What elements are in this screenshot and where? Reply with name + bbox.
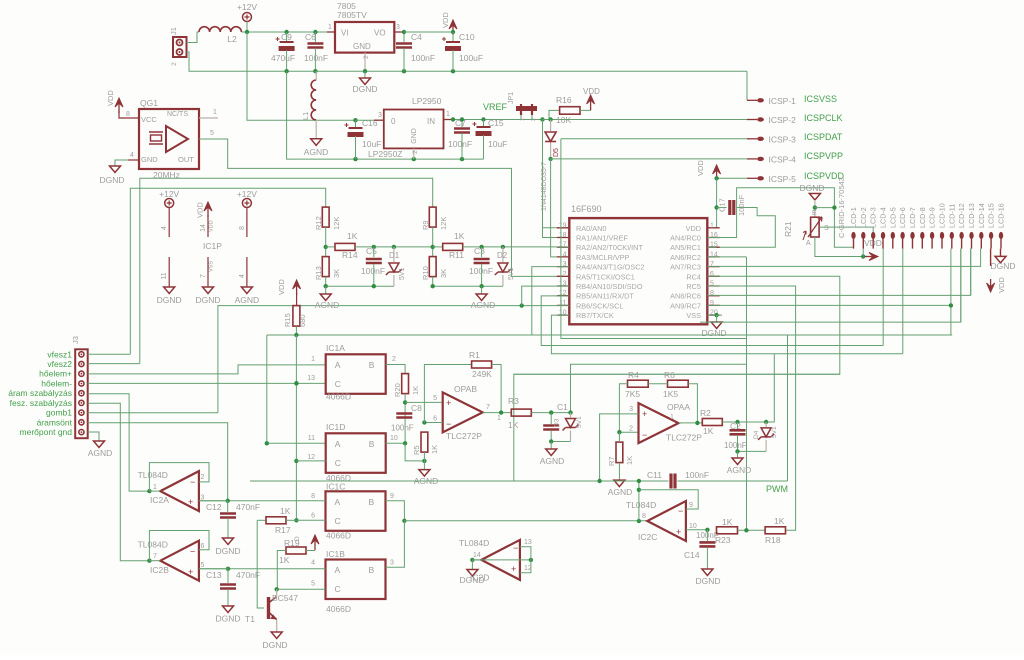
svg-text:GND: GND xyxy=(411,128,418,144)
svg-text:DGND: DGND xyxy=(262,640,287,650)
svg-text:AGND: AGND xyxy=(471,300,496,310)
wire IC1A B out to R20 xyxy=(386,365,405,374)
resistor R14 1K xyxy=(326,246,335,248)
resistor R2 1K xyxy=(702,419,722,426)
svg-text:LCD-3: LCD-3 xyxy=(869,207,878,228)
svg-text:VI: VI xyxy=(341,29,349,38)
svg-text:hőelem-: hőelem- xyxy=(41,379,72,389)
svg-text:L1: L1 xyxy=(301,112,310,120)
power VDD arrow at 7805 output xyxy=(452,23,454,35)
wire RA2 pin17 to divider net xyxy=(503,246,569,248)
svg-text:D: D xyxy=(294,536,301,541)
svg-text:−: − xyxy=(190,547,195,557)
pin ICSP-3 ICSPDAT xyxy=(561,138,747,140)
wire RB5 pin12 drop xyxy=(541,296,883,346)
diode D5 1N4148 xyxy=(548,117,552,121)
svg-text:2: 2 xyxy=(412,150,419,154)
svg-text:DGND: DGND xyxy=(352,84,377,94)
ground AGND under C3 xyxy=(481,286,483,294)
svg-text:D5: D5 xyxy=(553,148,560,157)
svg-text:8: 8 xyxy=(311,493,315,500)
ground AGND under R5 xyxy=(423,461,425,470)
wire R4 left to OPAA - xyxy=(619,384,638,433)
svg-text:LCD-4: LCD-4 xyxy=(879,207,888,228)
svg-text:R15: R15 xyxy=(283,313,292,327)
svg-text:B: B xyxy=(369,439,375,449)
svg-text:DGND: DGND xyxy=(157,295,182,305)
svg-text:10: 10 xyxy=(390,435,398,442)
svg-text:C-GRID-16-70543: C-GRID-16-70543 xyxy=(837,177,846,238)
svg-text:1N4148DO35-7: 1N4148DO35-7 xyxy=(541,162,548,211)
svg-text:4: 4 xyxy=(161,226,168,230)
wire C2 D4 ground row xyxy=(738,450,767,452)
svg-text:R2: R2 xyxy=(700,408,711,418)
svg-text:LCD-5: LCD-5 xyxy=(888,207,897,228)
wire LCD-15 to VDD down arrow xyxy=(990,249,992,266)
svg-text:12: 12 xyxy=(307,454,315,461)
svg-text:7: 7 xyxy=(200,274,207,278)
svg-text:9: 9 xyxy=(689,502,693,509)
wire PWM filter feedback column xyxy=(746,257,748,530)
svg-text:1: 1 xyxy=(213,109,217,116)
svg-text:17: 17 xyxy=(559,242,567,249)
wire D5 to MCLR pin 4 xyxy=(548,157,552,161)
svg-text:IC2B: IC2B xyxy=(150,565,169,575)
svg-text:TL084D: TL084D xyxy=(138,540,168,550)
resistor R11 1K xyxy=(433,246,443,248)
ground AGND at J3 xyxy=(94,441,105,448)
svg-text:R20: R20 xyxy=(393,383,402,397)
wire R20 bottom to OPAB+ xyxy=(404,394,406,444)
svg-text:+: + xyxy=(188,497,193,507)
svg-text:VDD: VDD xyxy=(997,277,1006,293)
svg-text:1K: 1K xyxy=(625,456,634,465)
ground AGND under L1 xyxy=(311,139,322,146)
svg-text:OUT: OUT xyxy=(178,155,194,164)
svg-text:1: 1 xyxy=(328,24,332,31)
inductor L1 xyxy=(311,80,316,120)
svg-text:4066D: 4066D xyxy=(326,531,351,541)
capacitor C7 100nF xyxy=(451,117,455,121)
svg-text:249K: 249K xyxy=(472,369,492,379)
wire IC2C pin9 feedback tap xyxy=(639,490,698,509)
ground DGND at QG1 xyxy=(128,159,139,161)
svg-text:8: 8 xyxy=(126,111,130,118)
ground AGND under R13 xyxy=(325,286,327,294)
wire RA4 pin3 drop xyxy=(532,267,569,335)
wire divider AGND row left xyxy=(326,285,394,287)
resistor R16 10K xyxy=(543,110,560,119)
capacitor C12 470nF xyxy=(227,501,229,512)
wire IC2C input net xyxy=(637,519,641,523)
svg-text:+12V: +12V xyxy=(159,189,179,199)
svg-text:3: 3 xyxy=(201,495,205,502)
svg-text:R14: R14 xyxy=(342,250,358,260)
svg-text:−: − xyxy=(678,506,683,516)
svg-text:12K: 12K xyxy=(332,217,341,230)
wire gomb1 xyxy=(88,412,218,414)
resistor R17 1K xyxy=(257,519,266,521)
svg-text:RB6/SCK/SCL: RB6/SCK/SCL xyxy=(576,301,623,310)
svg-text:3: 3 xyxy=(378,112,382,119)
svg-text:AGND: AGND xyxy=(304,147,329,157)
capacitor C10 100uF xyxy=(451,30,455,34)
svg-text:RA1/AN1/VREF: RA1/AN1/VREF xyxy=(576,234,628,243)
svg-text:RB4/AN10/SDI/SDO: RB4/AN10/SDI/SDO xyxy=(576,282,643,291)
capacitor C1 100nF xyxy=(549,410,553,414)
svg-text:LCD-2: LCD-2 xyxy=(859,207,868,228)
wire R19 left to T1 base node xyxy=(277,551,286,590)
svg-text:+: + xyxy=(676,527,681,537)
svg-text:4: 4 xyxy=(130,152,134,159)
svg-text:GND: GND xyxy=(353,42,371,51)
svg-text:VCC: VCC xyxy=(141,115,157,124)
svg-text:VDD: VDD xyxy=(196,202,205,218)
oscillator QG1 20MHz xyxy=(139,109,199,169)
svg-text:C: C xyxy=(335,458,341,468)
svg-text:B: B xyxy=(369,565,375,575)
svg-text:1K: 1K xyxy=(703,426,714,436)
wire ground rail drop to analog ground rail xyxy=(287,71,484,159)
resistor R23 1K xyxy=(717,527,738,534)
svg-text:DGND: DGND xyxy=(99,175,124,185)
svg-text:3K: 3K xyxy=(439,269,448,278)
svg-text:VDD: VDD xyxy=(583,87,600,96)
op-amp OPAB TLC272P xyxy=(443,392,483,432)
svg-text:1K: 1K xyxy=(722,517,733,527)
node VREF junction to RA0/RA1 xyxy=(540,117,544,121)
wire IC2A+ net to IC1C pin8 xyxy=(199,500,326,502)
svg-text:2: 2 xyxy=(629,426,633,433)
svg-text:C16: C16 xyxy=(362,118,378,128)
ground DGND under C14 xyxy=(702,569,713,576)
wire AN9 pin9 to LCD-11 xyxy=(707,304,951,306)
ground DGND under C13 xyxy=(223,606,234,613)
svg-text:C5: C5 xyxy=(366,246,377,256)
svg-text:R16: R16 xyxy=(556,95,572,105)
wire R21 wiper to LCD-3 xyxy=(819,227,873,241)
wire vfesz2 net to R9 xyxy=(140,178,433,363)
wire T1 emitter to DGND xyxy=(276,620,278,633)
svg-text:VREF: VREF xyxy=(483,102,508,112)
svg-text:R13: R13 xyxy=(314,266,323,280)
svg-text:2: 2 xyxy=(201,474,205,481)
svg-text:TLC272P: TLC272P xyxy=(446,431,482,441)
wire rail branch column xyxy=(787,335,789,481)
power +12V symbol xyxy=(165,199,174,208)
svg-text:OPAB: OPAB xyxy=(454,384,477,394)
capacitor C13 470nF xyxy=(227,569,229,583)
svg-text:R17: R17 xyxy=(275,525,291,535)
wire VSS line to LCD-12 xyxy=(717,314,722,316)
regulator LP2950 xyxy=(384,110,444,149)
svg-text:A: A xyxy=(335,439,341,449)
svg-text:RA2/AN2/T0CKI/INT: RA2/AN2/T0CKI/INT xyxy=(576,243,643,252)
svg-text:8: 8 xyxy=(710,290,714,297)
svg-text:4066D: 4066D xyxy=(326,604,351,614)
svg-text:100nF: 100nF xyxy=(685,470,709,480)
svg-text:D4: D4 xyxy=(753,430,760,439)
resistor R5 1K xyxy=(421,432,428,452)
pin ICSP-4 ICSPVPP xyxy=(551,158,747,160)
wire vfesz1 net to R12 xyxy=(130,188,325,354)
svg-text:RA0/AN0: RA0/AN0 xyxy=(576,224,606,233)
svg-text:vfesz2: vfesz2 xyxy=(47,359,72,369)
wire AN6 pin14 to PWM filter column xyxy=(707,256,746,258)
svg-text:J1: J1 xyxy=(169,27,178,35)
svg-text:3: 3 xyxy=(396,24,400,31)
svg-text:0: 0 xyxy=(391,117,396,126)
svg-text:470uF: 470uF xyxy=(271,53,295,63)
resistor R10 3K xyxy=(429,257,436,277)
wire LCD-11 drop xyxy=(950,249,952,335)
svg-text:19: 19 xyxy=(559,222,567,229)
svg-text:100nF: 100nF xyxy=(304,53,328,63)
svg-text:IN: IN xyxy=(427,117,435,126)
wire IC1C pin6 from R17 xyxy=(296,519,325,521)
svg-text:L2: L2 xyxy=(227,34,237,44)
svg-text:C4: C4 xyxy=(411,32,422,42)
wire RB6 pin11 gomb1 line xyxy=(218,306,569,413)
svg-text:ICSPVPP: ICSPVPP xyxy=(804,151,843,161)
svg-text:LCD-12: LCD-12 xyxy=(957,203,966,228)
wire aramsont to IC2A+ C12 net xyxy=(88,423,228,501)
svg-text:DGND: DGND xyxy=(701,328,726,338)
svg-text:1K: 1K xyxy=(430,445,439,454)
svg-text:C9: C9 xyxy=(281,32,292,42)
svg-text:AN5/RC1: AN5/RC1 xyxy=(670,243,701,252)
svg-text:TL084D: TL084D xyxy=(138,470,168,480)
svg-text:2: 2 xyxy=(563,271,567,278)
svg-text:5: 5 xyxy=(311,581,315,588)
resistor R7 1K xyxy=(616,442,623,463)
svg-text:IC2D: IC2D xyxy=(470,573,489,583)
capacitor C15 10uF xyxy=(481,117,485,121)
svg-text:+12V: +12V xyxy=(237,2,257,12)
svg-text:E: E xyxy=(812,210,817,217)
wire IC1B pin5 net xyxy=(277,588,326,590)
svg-text:R23: R23 xyxy=(715,535,731,545)
svg-text:AGND: AGND xyxy=(88,448,113,458)
svg-text:6: 6 xyxy=(311,513,315,520)
wire T1 collector up to base node xyxy=(276,589,278,596)
svg-text:BC547: BC547 xyxy=(272,593,298,603)
svg-text:TL084D: TL084D xyxy=(626,500,656,510)
power net +12V symbol xyxy=(243,13,252,22)
svg-text:LCD-13: LCD-13 xyxy=(967,203,976,228)
wire IC2A + input xyxy=(199,500,228,502)
wire OPAB - input xyxy=(424,422,442,424)
svg-text:C: C xyxy=(335,516,341,526)
wire QG1 NC stub pin 1 xyxy=(199,117,218,119)
power VDD arrow at R16 xyxy=(590,98,592,110)
svg-text:680: 680 xyxy=(298,314,307,327)
wire R15 bottom to rail xyxy=(295,326,297,335)
svg-text:C14: C14 xyxy=(684,550,700,560)
inductor L2 xyxy=(199,27,241,32)
wire J1 pin1 to L2 xyxy=(187,32,200,43)
svg-text:R4: R4 xyxy=(628,370,639,380)
svg-text:8: 8 xyxy=(642,513,646,520)
resistor R20 1K xyxy=(402,374,409,394)
svg-text:IC1B: IC1B xyxy=(326,549,345,559)
svg-text:NC/TS: NC/TS xyxy=(167,111,188,118)
svg-text:RA5/T1CKI/OSC1: RA5/T1CKI/OSC1 xyxy=(576,272,635,281)
wire IC2B output and feedback xyxy=(147,559,151,563)
svg-text:IC2C: IC2C xyxy=(638,532,657,542)
zener diode D3 5V1 xyxy=(568,410,572,414)
svg-text:R5: R5 xyxy=(412,445,421,455)
svg-text:13: 13 xyxy=(524,539,532,546)
svg-text:C: C xyxy=(335,379,341,389)
wire R12 to R13 node xyxy=(325,227,327,256)
ground DGND under 7805 xyxy=(364,71,366,78)
svg-text:9: 9 xyxy=(390,493,394,500)
svg-text:VO: VO xyxy=(374,29,386,38)
svg-text:14: 14 xyxy=(200,224,207,232)
svg-text:1K: 1K xyxy=(508,420,519,430)
svg-text:5: 5 xyxy=(433,395,437,402)
wire R6 right to OPAA out xyxy=(688,384,697,423)
wire C1 net riser xyxy=(571,364,747,412)
svg-text:R6: R6 xyxy=(664,370,675,380)
wire RA0 pin 19 tap xyxy=(543,227,570,229)
wire J1 pin2 return to ground rail xyxy=(187,52,287,71)
svg-text:T1: T1 xyxy=(245,614,255,624)
svg-text:+: + xyxy=(511,564,516,574)
power VDD arrow down at LCD-15 xyxy=(990,279,992,289)
svg-text:7K5: 7K5 xyxy=(625,389,640,399)
resistor R18 1K xyxy=(765,527,785,534)
svg-text:RC4: RC4 xyxy=(686,272,701,281)
connector J1 xyxy=(173,37,187,57)
svg-text:C17: C17 xyxy=(718,198,727,212)
wire LCD-12 drop xyxy=(960,249,962,323)
svg-text:10uF: 10uF xyxy=(488,139,507,149)
capacitor C8 100nF xyxy=(396,414,412,418)
svg-text:C15: C15 xyxy=(488,118,504,128)
svg-text:+: + xyxy=(188,567,193,577)
svg-text:1K5: 1K5 xyxy=(663,389,678,399)
svg-text:1: 1 xyxy=(311,356,315,363)
wire hoelem- to IC1A pin13 xyxy=(88,382,326,384)
svg-text:ICSP-3: ICSP-3 xyxy=(769,134,797,144)
svg-text:5: 5 xyxy=(201,562,205,569)
wire meropont gnd to AGND xyxy=(88,432,99,441)
ground DGND at LCD-16 xyxy=(1000,249,1002,257)
svg-text:6: 6 xyxy=(433,416,437,423)
svg-text:R1: R1 xyxy=(469,350,480,360)
regulator IC 7805TV xyxy=(335,22,394,53)
svg-text:R11: R11 xyxy=(449,250,464,260)
resistor R9 12K xyxy=(429,207,436,227)
svg-text:100nF: 100nF xyxy=(724,441,747,450)
svg-text:RA4/AN3/T1G/OSC2: RA4/AN3/T1G/OSC2 xyxy=(576,263,645,272)
VREF output rail xyxy=(453,119,560,121)
wire OPAA output to R2 xyxy=(679,422,703,424)
wire IC1D B out pin10 xyxy=(386,442,404,444)
svg-text:VDD: VDD xyxy=(106,90,115,106)
svg-text:+: + xyxy=(642,409,647,419)
svg-text:IC1C: IC1C xyxy=(326,482,345,492)
svg-text:LCD-8: LCD-8 xyxy=(918,207,927,228)
svg-text:AGND: AGND xyxy=(315,300,340,310)
wire R13 bottom to AGND net xyxy=(325,277,327,287)
capacitor C16 10uF xyxy=(353,118,357,122)
svg-text:12K: 12K xyxy=(439,217,448,230)
wire control net column xyxy=(295,335,297,520)
svg-text:DGND: DGND xyxy=(990,261,1015,271)
svg-text:1K: 1K xyxy=(347,231,358,241)
potentiometer R21 xyxy=(811,217,820,237)
svg-text:5V1: 5V1 xyxy=(508,267,515,280)
ground DGND under IC2D xyxy=(471,560,473,570)
svg-text:áram szabályzás: áram szabályzás xyxy=(8,388,72,398)
capacitor C3 100nF xyxy=(479,245,483,249)
svg-text:ICSP-2: ICSP-2 xyxy=(769,115,797,125)
svg-text:A: A xyxy=(335,360,341,370)
power VDD arrow at R19 xyxy=(314,538,316,550)
zener diode D1 5V1 xyxy=(392,245,396,249)
analog output rail xyxy=(250,480,669,482)
svg-text:7: 7 xyxy=(486,404,490,411)
svg-text:DGND: DGND xyxy=(799,183,824,193)
wire R4 R6 middle xyxy=(648,383,667,385)
ground DGND under T1 xyxy=(271,632,282,639)
svg-text:7805TV: 7805TV xyxy=(337,10,367,20)
wire IC2B + input xyxy=(199,568,228,570)
pin ICSP-5 ICSPVDD xyxy=(717,177,747,179)
svg-text:−: − xyxy=(513,543,518,553)
wire DGND node to LCD-1 column xyxy=(815,207,835,209)
wire RB4 pin13 tap xyxy=(520,303,524,307)
wire RC0 pin16 to LCD-1 xyxy=(707,188,853,248)
wire divider AGND row right xyxy=(433,285,503,287)
op-amp OPAA TLC272P xyxy=(639,403,679,443)
ground DGND under C12 xyxy=(223,538,234,545)
wire +12V rail to 7805 VI xyxy=(247,31,327,33)
svg-text:100nF: 100nF xyxy=(448,139,472,149)
svg-text:IC1P: IC1P xyxy=(203,241,222,251)
svg-text:LCD-9: LCD-9 xyxy=(928,207,937,228)
svg-text:D1: D1 xyxy=(389,251,400,260)
wire pull-up rail xyxy=(267,334,952,336)
svg-text:LCD-16: LCD-16 xyxy=(997,203,1006,228)
svg-text:5: 5 xyxy=(210,130,214,137)
svg-text:4: 4 xyxy=(563,251,567,258)
capacitor C17 100nF xyxy=(717,207,727,209)
svg-text:10uF: 10uF xyxy=(362,139,381,149)
wire OPAB output xyxy=(483,412,512,414)
svg-text:R12: R12 xyxy=(314,216,323,230)
svg-text:100nF: 100nF xyxy=(469,266,493,276)
svg-text:B: B xyxy=(369,360,375,370)
svg-text:C8: C8 xyxy=(411,403,422,413)
wire IC2C pin10 + input xyxy=(686,529,707,531)
wire rail drop to IC1D pin 11 xyxy=(267,335,326,443)
svg-text:LCD-6: LCD-6 xyxy=(898,207,907,228)
svg-text:AGND: AGND xyxy=(540,456,565,466)
svg-text:1: 1 xyxy=(670,414,674,421)
svg-text:A: A xyxy=(335,565,341,575)
resistor R1 249K feedback xyxy=(424,365,471,423)
svg-text:VDD: VDD xyxy=(696,160,705,176)
wire hoelem+ to IC1A pin1 xyxy=(88,365,326,374)
power VDD arrow at ICSP-5 xyxy=(716,168,718,180)
svg-text:LCD-11: LCD-11 xyxy=(947,204,956,228)
svg-text:AGND: AGND xyxy=(235,295,260,305)
svg-text:IC2A: IC2A xyxy=(150,495,169,505)
